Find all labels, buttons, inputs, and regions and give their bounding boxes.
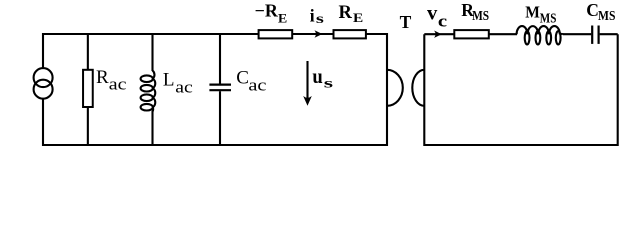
resistor R_MS [454, 30, 489, 38]
wire C_ac branch top [219, 34, 221, 84]
svg-text:E: E [353, 10, 363, 25]
svg-text:C: C [586, 0, 599, 20]
svg-text:MS: MS [540, 10, 557, 25]
inductor L_ac [141, 71, 156, 112]
svg-text:ac: ac [248, 76, 267, 95]
resistor R_E [334, 30, 366, 38]
svg-text:i: i [310, 6, 315, 26]
svg-text:ac: ac [175, 78, 193, 97]
capacitor C_ac plate bottom [209, 89, 231, 91]
wire left loop outline [43, 34, 387, 145]
inductor M_MS [517, 26, 563, 44]
transformer T left winding [387, 70, 403, 106]
svg-text:s: s [324, 77, 334, 92]
arrow i_s head [315, 30, 323, 37]
svg-text:u: u [312, 66, 322, 88]
wire C_ac branch bottom [219, 91, 221, 145]
svg-text:MS: MS [598, 8, 615, 23]
capacitor C_MS plate right [597, 26, 599, 44]
resistor -R_E [259, 30, 293, 38]
wire right loop top segment 1 [424, 33, 517, 35]
arrow u_s line [306, 61, 308, 99]
capacitor C_MS plate left [591, 26, 593, 44]
current source (two overlapping circles) [34, 68, 53, 87]
capacitor C_ac plate top [209, 83, 231, 85]
svg-text:−R: −R [255, 1, 279, 21]
svg-text:E: E [278, 10, 287, 25]
svg-text:v: v [427, 3, 437, 25]
wire right loop top segment 3 [600, 33, 618, 35]
arrow u_s head [303, 96, 312, 106]
svg-text:R: R [339, 3, 353, 23]
resistor R_ac [83, 70, 93, 107]
wire R_ac branch [87, 34, 89, 145]
svg-text:ac: ac [109, 75, 127, 94]
svg-text:c: c [438, 11, 447, 30]
svg-text:C: C [236, 68, 249, 89]
svg-text:M: M [525, 2, 540, 21]
svg-text:R: R [96, 67, 109, 88]
svg-text:MS: MS [472, 8, 489, 23]
svg-text:s: s [316, 11, 324, 26]
wire right loop outline [424, 34, 617, 145]
wire right loop top segment 2 [563, 33, 591, 35]
wire L_ac branch top [151, 34, 153, 71]
wire L_ac branch bottom [151, 111, 153, 145]
arrow v_c head [434, 31, 442, 38]
svg-text:T: T [400, 12, 412, 32]
transformer T right winding [412, 70, 424, 106]
svg-text:L: L [163, 70, 175, 91]
